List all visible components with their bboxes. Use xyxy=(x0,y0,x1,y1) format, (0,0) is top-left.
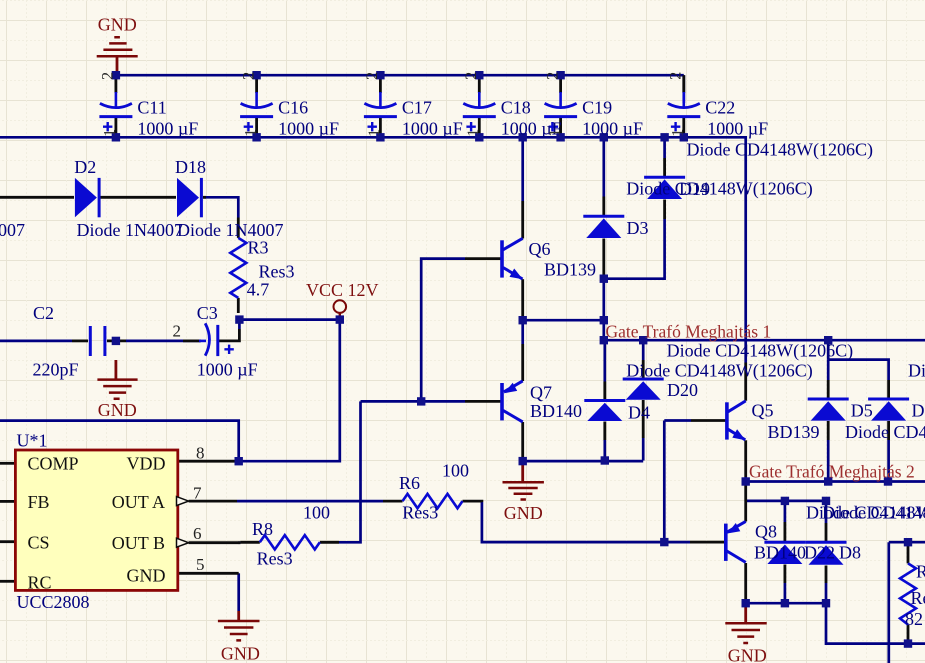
svg-text:2: 2 xyxy=(364,72,381,80)
pin D19 bottom xyxy=(663,200,666,220)
svg-text:D2: D2 xyxy=(74,157,96,177)
wire VDD feed from left xyxy=(0,421,239,462)
svg-text:Q7: Q7 xyxy=(530,383,552,403)
svg-text:1: 1 xyxy=(465,129,482,137)
wire Q7 collector node row xyxy=(523,458,644,461)
svg-text:D19: D19 xyxy=(679,179,710,199)
pin cap vertical leads xyxy=(115,75,118,93)
diode D5 xyxy=(808,399,849,421)
pin Q5 base xyxy=(691,419,726,422)
wire Q5 base feed riser xyxy=(663,421,666,543)
pin R7 bottom xyxy=(907,625,910,644)
svg-text:BD140: BD140 xyxy=(530,401,582,421)
svg-text:Gate Trafó Meghajtás 2: Gate Trafó Meghajtás 2 xyxy=(749,461,915,481)
svg-text:D18: D18 xyxy=(175,157,206,177)
transistor Q7 PNP xyxy=(502,381,523,422)
svg-text:Diode 1N4007: Diode 1N4007 xyxy=(77,220,184,240)
svg-text:C3: C3 xyxy=(197,303,218,323)
svg-text:CS: CS xyxy=(28,532,50,552)
diode D18 xyxy=(177,178,201,217)
svg-text:C22: C22 xyxy=(705,98,735,118)
wire bottom bus xyxy=(0,136,746,139)
svg-text:R8: R8 xyxy=(252,519,273,539)
pin R7 top xyxy=(907,542,910,563)
svg-text:Diode CD4148W(1206C): Diode CD4148W(1206C) xyxy=(845,422,925,443)
svg-text:R6: R6 xyxy=(399,473,420,493)
pin R3 bottom xyxy=(237,298,240,313)
svg-text:UCC2808: UCC2808 xyxy=(17,592,90,612)
pin IC OUT A xyxy=(189,500,237,503)
svg-text:OUT B: OUT B xyxy=(112,533,165,553)
capacitor C17 xyxy=(364,92,397,131)
svg-text:5: 5 xyxy=(196,555,205,574)
pin D21 bottom xyxy=(887,421,890,440)
svg-text:C18: C18 xyxy=(501,98,531,118)
pin D22 top xyxy=(784,522,787,541)
capacitor C18 xyxy=(463,92,496,131)
wire C2 left xyxy=(0,340,72,343)
pin D8 top xyxy=(825,523,828,543)
pin D3 top xyxy=(602,197,605,217)
wire D19 top from bus xyxy=(663,137,666,158)
wire D22 bottom xyxy=(784,583,787,603)
svg-text:1000 µF: 1000 µF xyxy=(582,119,643,139)
pin Q6 emitter xyxy=(521,279,524,316)
wire D20 bottom corner xyxy=(642,438,645,461)
pin Q6 base xyxy=(465,257,501,260)
svg-text:Res3: Res3 xyxy=(402,502,438,522)
pin C2 right xyxy=(107,339,126,342)
svg-text:D22: D22 xyxy=(804,543,835,563)
diode D3 xyxy=(583,216,624,238)
svg-text:2: 2 xyxy=(544,72,561,80)
wire R8 to riser corner xyxy=(339,401,361,542)
svg-text:Q8: Q8 xyxy=(755,522,777,542)
svg-text:VDD: VDD xyxy=(127,454,166,474)
resistor R3 xyxy=(230,238,246,298)
diode D22 xyxy=(764,542,805,564)
svg-text:Res3: Res3 xyxy=(911,588,925,608)
IC pin numbers xyxy=(193,444,205,574)
wire OUT A after pin xyxy=(237,500,383,503)
svg-text:Gate Trafó Meghajtás 1: Gate Trafó Meghajtás 1 xyxy=(606,321,772,341)
svg-text:100: 100 xyxy=(442,461,469,481)
wire D21 bottom xyxy=(887,440,890,482)
pin OUT B output marker xyxy=(177,538,189,547)
svg-text:GND: GND xyxy=(98,400,137,420)
ground under C2 xyxy=(97,360,137,399)
wire D3 bottom link to D19 xyxy=(604,219,665,279)
svg-text:Diode CD4148W(1206C): Diode CD4148W(1206C) xyxy=(667,341,853,362)
pin IC COMP xyxy=(0,462,15,465)
net Gate Trafo Meghajtas 2 xyxy=(746,480,925,483)
pin Q7 collector bottom xyxy=(521,422,524,458)
ground under Q7 xyxy=(503,463,544,500)
wire pin5 down to GND xyxy=(237,573,240,611)
svg-text:1: 1 xyxy=(546,129,563,137)
svg-text:1: 1 xyxy=(366,129,383,137)
pin C2 left xyxy=(72,339,88,342)
pin IC RC xyxy=(0,580,15,583)
svg-text:BD139: BD139 xyxy=(768,422,820,442)
pin D21 top xyxy=(887,380,890,399)
pin IC FB xyxy=(0,500,15,503)
svg-text:R7: R7 xyxy=(916,562,925,582)
pin Q7 emitter top xyxy=(521,344,524,381)
svg-text:D8: D8 xyxy=(839,543,861,563)
wire R3 node to VCC node xyxy=(239,318,339,321)
svg-text:RC: RC xyxy=(28,572,52,592)
svg-text:Diode CD4148W(1206C): Diode CD4148W(1206C) xyxy=(626,179,812,200)
wire D5 bottom xyxy=(827,440,830,482)
svg-text:C19: C19 xyxy=(582,98,612,118)
wire D8 top xyxy=(825,501,828,523)
wire R6 corner down to Q8 base node xyxy=(482,502,690,542)
wire D5 riser from net1 xyxy=(827,340,830,359)
svg-text:1000 µF: 1000 µF xyxy=(707,119,768,139)
wire right box vertical xyxy=(887,542,890,663)
svg-text:Diode 1N4007: Diode 1N4007 xyxy=(0,220,25,240)
svg-text:2: 2 xyxy=(463,72,480,80)
pin D22 bottom xyxy=(784,565,787,584)
pin R8 left xyxy=(240,541,259,544)
svg-text:D3: D3 xyxy=(627,218,649,238)
pin Q6 collector xyxy=(521,201,524,239)
svg-text:1000 µF: 1000 µF xyxy=(137,119,198,139)
pin OUT A output marker xyxy=(177,497,189,506)
svg-text:Diode CD4148W(1206C): Diode CD4148W(1206C) xyxy=(687,139,873,160)
ground under pin 5 xyxy=(218,611,260,640)
svg-text:Res3: Res3 xyxy=(257,549,293,569)
pin D4 bottom xyxy=(603,422,606,441)
wire Q6 emitter node row xyxy=(521,316,524,344)
svg-text:D5: D5 xyxy=(851,401,873,421)
svg-text:1000 µF: 1000 µF xyxy=(197,360,258,380)
svg-text:C2: C2 xyxy=(33,303,54,323)
capacitor C11 xyxy=(99,92,132,131)
wire D4 top xyxy=(603,340,606,381)
pin D3 bottom xyxy=(602,239,605,277)
svg-text:COMP: COMP xyxy=(28,454,79,474)
pin R3 top xyxy=(237,218,240,238)
svg-text:GND: GND xyxy=(504,503,543,523)
svg-text:1000 µF: 1000 µF xyxy=(278,119,339,139)
svg-text:BD139: BD139 xyxy=(544,260,596,280)
svg-text:100: 100 xyxy=(303,502,330,522)
wire Q8 emitter from net2 xyxy=(744,482,747,486)
wire Q5 base row xyxy=(664,419,691,422)
svg-text:8: 8 xyxy=(196,444,205,463)
capacitor C2 xyxy=(90,326,105,356)
wire Q5 collector rail from bus xyxy=(744,136,747,363)
svg-text:OUT A: OUT A xyxy=(112,492,165,512)
pin D8 bottom xyxy=(825,566,828,584)
wire D5 top xyxy=(827,360,830,380)
diode D2 xyxy=(75,178,99,217)
pin D19 top xyxy=(663,158,666,178)
svg-text:C17: C17 xyxy=(402,98,432,118)
pin R6 left xyxy=(383,500,403,503)
pin D20 bottom xyxy=(642,400,645,438)
transistor Q8 PNP xyxy=(726,521,746,562)
svg-text:GND: GND xyxy=(127,566,166,586)
svg-text:R3: R3 xyxy=(248,238,269,258)
capacitor C3 xyxy=(199,323,234,356)
svg-text:VCC 12V: VCC 12V xyxy=(306,280,379,300)
pin Q7 base xyxy=(465,400,501,403)
pin Q5 collector xyxy=(744,363,747,401)
svg-text:Q6: Q6 xyxy=(529,239,551,259)
wire D3 node down to net1 xyxy=(602,279,605,341)
wire D4 bottom xyxy=(603,440,606,461)
pin D4 top xyxy=(603,382,606,402)
pin Q8 emitter xyxy=(744,485,747,522)
pin Q5 emitter xyxy=(744,440,747,477)
svg-text:Diode CD4148W(1206C): Diode CD4148W(1206C) xyxy=(908,361,925,382)
capacitor C16 xyxy=(240,92,273,131)
pin D2 row black leads xyxy=(0,196,74,199)
pin D20 top xyxy=(642,360,645,380)
wire D8 bottom corner to lower-right xyxy=(826,583,925,644)
wire Q6-Q7 emitter link xyxy=(523,319,604,322)
diode D4 xyxy=(584,401,625,422)
wire right box top xyxy=(889,541,925,544)
diode D8 xyxy=(806,542,847,565)
wire C3 right corner up xyxy=(238,320,241,329)
wire D20 top xyxy=(642,340,645,360)
diode D20 xyxy=(623,379,664,400)
svg-text:GND: GND xyxy=(221,644,260,663)
pin IC CS xyxy=(0,540,15,543)
svg-text:82: 82 xyxy=(905,609,923,629)
svg-text:2: 2 xyxy=(100,72,117,80)
wire Q6 collector from bus xyxy=(521,137,524,201)
svg-text:4.7: 4.7 xyxy=(247,279,269,299)
svg-text:U*1: U*1 xyxy=(17,431,48,451)
svg-text:220pF: 220pF xyxy=(33,360,79,380)
pin D5 top xyxy=(827,380,830,399)
transistor Q5 NPN xyxy=(727,401,746,440)
pin C3 right xyxy=(219,329,239,341)
IC pin names xyxy=(28,454,166,593)
svg-text:D4: D4 xyxy=(628,403,650,423)
svg-text:Diode CD4148W(1206C): Diode CD4148W(1206C) xyxy=(626,361,812,382)
svg-text:Diode CD4148W(1206C): Diode CD4148W(1206C) xyxy=(822,503,925,524)
svg-text:2: 2 xyxy=(240,72,257,80)
svg-text:GND: GND xyxy=(728,646,767,663)
svg-text:FB: FB xyxy=(28,492,50,512)
pin C3 left xyxy=(183,339,201,342)
junction dots xyxy=(112,71,120,79)
wire C22 corner down xyxy=(682,75,685,103)
ground under Q8 xyxy=(725,605,766,644)
pin Q8 base xyxy=(690,541,725,544)
svg-text:2: 2 xyxy=(668,72,685,80)
resistor R7 (right edge) xyxy=(900,563,916,624)
IC U*1 UCC2808 body xyxy=(15,450,177,590)
wire Q6 base riser xyxy=(421,259,465,402)
wire Q7 base row xyxy=(361,400,466,403)
net Gate Trafo Meghajtas 1 xyxy=(604,339,925,342)
svg-text:Q5: Q5 xyxy=(752,401,774,421)
svg-text:GND: GND xyxy=(98,15,137,35)
wire Q8 collector node row xyxy=(746,600,826,603)
svg-text:C16: C16 xyxy=(278,98,308,118)
wire D22 top xyxy=(784,501,787,522)
pin R8 right xyxy=(320,541,339,544)
svg-text:1000 µF: 1000 µF xyxy=(402,119,463,139)
svg-text:1: 1 xyxy=(670,129,687,137)
pin IC VDD xyxy=(178,460,237,463)
svg-text:7: 7 xyxy=(193,484,202,503)
wire VCC down to VDD xyxy=(237,320,340,462)
svg-text:D21: D21 xyxy=(912,401,925,421)
wire Q5 emitter to net2 xyxy=(744,477,747,482)
svg-text:2: 2 xyxy=(173,321,182,340)
resistor R8 xyxy=(260,535,320,549)
svg-text:1: 1 xyxy=(242,129,259,137)
svg-text:6: 6 xyxy=(193,524,202,543)
ground top (inverted) at C11 xyxy=(97,37,138,75)
diode D21 xyxy=(868,399,909,421)
capacitor C19 xyxy=(544,92,577,131)
pin R6 right xyxy=(463,500,482,504)
wire D22 D8 top row xyxy=(746,500,826,503)
power port VCC 12V xyxy=(334,300,347,318)
pin IC OUT B xyxy=(189,541,241,544)
pin D5 bottom xyxy=(827,421,830,440)
wire D5-D21 top link xyxy=(828,360,888,380)
svg-text:C11: C11 xyxy=(137,98,166,118)
wire top bus xyxy=(116,74,684,77)
wire OUT B after pin xyxy=(238,541,240,544)
wire D3 top from bus xyxy=(602,137,605,196)
svg-text:BD140: BD140 xyxy=(754,543,806,563)
pin Q8 collector xyxy=(744,563,747,600)
transistor Q6 NPN xyxy=(502,238,523,279)
resistor R6 xyxy=(403,494,463,508)
svg-text:1: 1 xyxy=(102,129,119,137)
diode D19 xyxy=(644,177,685,199)
wire D2 row to R3 corner xyxy=(203,197,238,217)
wire C2 to C3 xyxy=(126,340,200,343)
capacitor C22 xyxy=(667,92,700,131)
pin IC GND5 xyxy=(178,572,239,575)
svg-text:D20: D20 xyxy=(667,380,698,400)
